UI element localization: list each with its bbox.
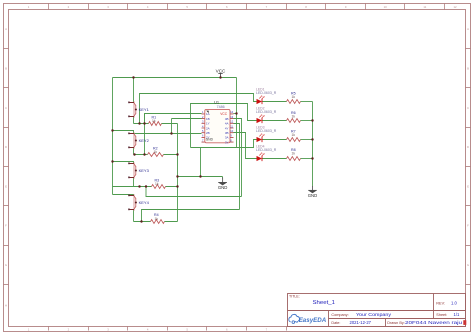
svg-text:U1: U1: [214, 99, 220, 104]
svg-text:4A: 4A: [225, 122, 229, 126]
svg-text:3B: 3B: [225, 131, 229, 135]
U1 left pin stubs 1-7: [202, 114, 205, 142]
svg-text:A: A: [467, 27, 469, 31]
svg-text:B: B: [5, 67, 7, 71]
resistor R2: [148, 147, 164, 157]
svg-text:VCC: VCC: [216, 68, 226, 73]
wire ground rail right: [312, 102, 314, 187]
svg-text:Your Company: Your Company: [356, 312, 392, 317]
svg-text:D: D: [5, 145, 7, 149]
wire KEY3 branch: [113, 162, 134, 164]
resistor R3: [152, 178, 166, 188]
U1 pin numbers: [202, 110, 234, 142]
svg-text:1k: 1k: [292, 95, 296, 99]
svg-text:3Y: 3Y: [225, 140, 229, 144]
pushbutton KEY4: [128, 194, 149, 210]
svg-text:TITLE:: TITLE:: [289, 295, 300, 299]
wire pin2 drop to KEY2 signal: [171, 119, 173, 134]
wire R8 to rail: [301, 158, 313, 160]
svg-text:7486: 7486: [217, 105, 225, 109]
resistor R6: [287, 111, 301, 123]
svg-text:E: E: [467, 184, 469, 188]
svg-text:2B: 2B: [206, 131, 210, 135]
pushbutton KEY2: [128, 132, 149, 148]
wire R7 to rail: [301, 139, 313, 141]
pushbutton KEY3: [128, 162, 149, 178]
resistor R5: [287, 91, 301, 103]
svg-text:KEY2: KEY2: [139, 138, 150, 143]
svg-text:F: F: [5, 224, 7, 228]
svg-text:E: E: [5, 184, 7, 188]
wire LED1 to R5: [262, 101, 287, 103]
wire pin10 to LED4: [234, 133, 257, 159]
svg-text:Company:: Company:: [331, 313, 348, 317]
svg-text:Drawn By:: Drawn By:: [387, 321, 405, 325]
svg-text:1k: 1k: [154, 150, 158, 154]
svg-text:A: A: [5, 27, 7, 31]
svg-text:3A: 3A: [225, 136, 229, 140]
svg-text:1k: 1k: [155, 217, 159, 221]
svg-text:LED-0603_R: LED-0603_R: [256, 129, 277, 133]
wire row2 riser to pin1 net: [144, 114, 146, 155]
svg-text:Sheet_1: Sheet_1: [313, 300, 336, 306]
wire pin12 riser from KEY4 line: [234, 124, 240, 210]
svg-text:1A: 1A: [206, 112, 210, 116]
wire VCC to pin14: [236, 78, 238, 148]
wire ground bus: [178, 176, 223, 178]
svg-text:LED-0603_R: LED-0603_R: [256, 148, 277, 152]
LED LED2: [256, 106, 277, 123]
TITLEBLOCK: [288, 294, 467, 327]
pushbutton KEY1: [128, 101, 149, 117]
svg-text:1k: 1k: [292, 152, 296, 156]
svg-text:12: 12: [453, 5, 457, 9]
LED LED1: [256, 87, 277, 104]
wire KEY2 branch: [113, 131, 134, 134]
svg-text:D: D: [467, 145, 469, 149]
svg-text:C: C: [467, 106, 469, 110]
svg-text:LED-0603_R: LED-0603_R: [256, 91, 277, 95]
junction dots: [111, 76, 313, 222]
IC U1 7486: [202, 99, 234, 144]
svg-text:G: G: [5, 263, 7, 267]
svg-text:GND: GND: [308, 193, 318, 198]
wire row2 node: [134, 154, 178, 156]
wire row1 to pin1: [145, 114, 202, 124]
EasyEDA logo: [289, 314, 327, 324]
wire pin13 riser from KEY3 line: [234, 119, 242, 197]
svg-text:1Y: 1Y: [206, 122, 210, 126]
svg-text:1B: 1B: [206, 117, 210, 121]
wire KEY1 top drop: [133, 78, 135, 103]
wire LED2 to R6: [262, 120, 287, 122]
svg-text:4B: 4B: [225, 117, 229, 121]
wire KEY3 signal drop: [146, 187, 242, 197]
svg-text:KEY1: KEY1: [139, 107, 150, 112]
svg-text:Date:: Date:: [331, 321, 340, 325]
wire LED2 feed riser: [191, 104, 257, 148]
svg-text:GND: GND: [206, 137, 214, 141]
svg-text:C: C: [5, 106, 7, 110]
resistor R7: [287, 130, 301, 142]
wire row4 node: [134, 221, 178, 223]
svg-text:4Y: 4Y: [225, 126, 229, 130]
svg-text:11: 11: [423, 5, 426, 9]
wire KEY4 bottom to row4: [133, 210, 135, 222]
wire IC pin7 drop to ground bus: [200, 148, 202, 177]
svg-text:KEY3: KEY3: [139, 168, 150, 173]
svg-text:1k: 1k: [152, 119, 156, 123]
wire LED3 to R7: [262, 139, 287, 141]
U1 pin names: [206, 112, 229, 144]
ground flag GND (center): [218, 178, 228, 190]
svg-text:20F044 Naveen raju: 20F044 Naveen raju: [405, 320, 463, 325]
wire LED3 feed under IC: [191, 140, 257, 148]
wire pin2 stub line: [172, 118, 202, 120]
svg-text:2A: 2A: [206, 126, 210, 130]
svg-text:LED-0603_R: LED-0603_R: [256, 110, 277, 114]
svg-text:H: H: [5, 304, 7, 308]
U1 right pin stubs 8-14: [230, 114, 234, 142]
wire row1 node: [134, 123, 178, 125]
svg-text:G: G: [467, 263, 469, 267]
resistor R4: [151, 213, 165, 223]
wire KEY3 bottom to row3: [133, 178, 135, 187]
wire left VCC branch rail: [112, 78, 114, 195]
wire KEY2 bottom to row2: [133, 148, 135, 155]
wire R5 to rail: [301, 101, 313, 103]
svg-text:Sheet:: Sheet:: [436, 313, 447, 317]
svg-text:B: B: [467, 67, 469, 71]
svg-text:2021-12-27: 2021-12-27: [350, 320, 372, 325]
svg-text:1.0: 1.0: [451, 300, 457, 305]
svg-text:REV:: REV:: [436, 301, 445, 305]
wire LED4 to R8: [262, 158, 287, 160]
power flag VCC: [216, 68, 226, 77]
wire ground bus drop to flag: [222, 177, 224, 179]
ground flag GND (right): [308, 186, 318, 198]
resistor R8: [287, 148, 301, 161]
wire VCC rail: [113, 77, 237, 79]
LED LED4: [256, 144, 277, 161]
svg-text:EasyEDA: EasyEDA: [299, 317, 327, 324]
LED LED3: [256, 125, 277, 142]
CIRCUIT: [111, 68, 317, 223]
wire ground riser: [177, 124, 179, 222]
wire KEY1 bottom to row1: [133, 117, 135, 124]
wire row3 node: [113, 186, 178, 188]
wire KEY4 branch: [113, 195, 134, 196]
wire KEY2 signal to pin5: [135, 133, 202, 135]
svg-text:1k: 1k: [292, 114, 296, 118]
svg-text:F: F: [467, 224, 469, 228]
svg-text:1k: 1k: [292, 133, 296, 137]
svg-text:GND: GND: [218, 185, 228, 190]
svg-text:KEY4: KEY4: [139, 200, 150, 205]
wire KEY1 signal riser to LED1: [140, 94, 257, 124]
svg-text:1/1: 1/1: [454, 312, 460, 317]
svg-text:1k: 1k: [155, 182, 159, 186]
wire KEY4 signal riser: [142, 210, 240, 222]
wire R6 to rail: [301, 120, 313, 122]
svg-text:10: 10: [384, 5, 388, 9]
wire pin14 stub link: [234, 113, 237, 115]
resistor R1: [149, 115, 162, 125]
svg-text:VCC: VCC: [220, 112, 227, 116]
